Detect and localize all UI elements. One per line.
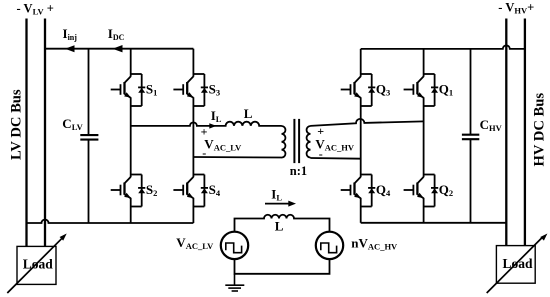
arrow Iinj — [65, 45, 75, 52]
LV DC bus negative line — [25, 19, 27, 247]
svg-text:- VLV +: - VLV + — [17, 2, 54, 17]
wire AC1 with crossover hump and inductor L — [131, 122, 282, 126]
svg-text:VAC_LV: VAC_LV — [176, 235, 214, 251]
svg-text:- VHV+: - VHV+ — [498, 1, 534, 16]
wire leg A midsection — [130, 106, 132, 175]
ground — [225, 274, 244, 291]
wire leg C midsection — [360, 106, 362, 175]
LV DC bus positive line — [44, 19, 46, 247]
load box right — [487, 234, 548, 294]
transistor Q2 — [404, 175, 454, 207]
wire AC2 left — [193, 156, 281, 159]
svg-text:L: L — [275, 218, 284, 233]
transistor Q3 — [341, 74, 391, 106]
capacitor CHV — [462, 49, 503, 223]
HV DC bus negative line — [505, 19, 507, 246]
arrow IL on AC1 wire — [209, 123, 216, 128]
wire Q2 emitter leg — [423, 207, 425, 223]
wire leg D midsection — [423, 106, 425, 175]
wire equivalent loop top with inductor L — [235, 215, 330, 232]
svg-text:IL: IL — [271, 186, 282, 202]
wire S1 collector leg — [130, 49, 132, 74]
svg-text:S3: S3 — [209, 81, 220, 97]
HV DC bus positive line — [524, 19, 526, 246]
svg-text:Load: Load — [23, 257, 54, 272]
svg-text:Load: Load — [503, 256, 534, 271]
wire top rail right with hump — [361, 45, 525, 48]
svg-text:LV DC Bus: LV DC Bus — [8, 89, 24, 160]
svg-text:IDC: IDC — [108, 26, 125, 42]
wire AC bottom right — [311, 157, 361, 160]
transistor Q1 — [404, 74, 454, 106]
svg-text:IL: IL — [211, 108, 222, 124]
svg-text:L: L — [244, 106, 253, 121]
svg-text:nVAC_HV: nVAC_HV — [351, 235, 398, 251]
svg-text:CHV: CHV — [480, 117, 503, 133]
transistor S4 — [173, 175, 220, 207]
transistor Q4 — [341, 175, 391, 207]
arrow IL bottom — [265, 201, 296, 207]
wire Q1 collector leg — [423, 49, 425, 74]
wire bottom rail left with hump — [27, 220, 194, 224]
transformer core — [294, 119, 299, 163]
svg-text:S2: S2 — [146, 182, 157, 198]
svg-text:Q3: Q3 — [376, 81, 390, 97]
wire S3 collector leg — [192, 49, 194, 74]
wire leg B midsection — [192, 106, 194, 175]
svg-text:VAC_LV: VAC_LV — [204, 136, 242, 152]
svg-text:S1: S1 — [146, 81, 157, 97]
wire S4 emitter leg — [192, 207, 194, 224]
svg-text:Q2: Q2 — [439, 182, 453, 198]
svg-text:Iinj: Iinj — [63, 26, 78, 42]
transformer T1 primary winding — [282, 126, 286, 158]
svg-text:Q1: Q1 — [439, 81, 453, 97]
load box left — [7, 234, 66, 294]
wire equivalent loop bottom — [235, 259, 330, 274]
wire top rail left bridge — [45, 48, 193, 50]
arrow IDC — [113, 45, 123, 52]
wire AC top right with crossover hump — [311, 119, 424, 126]
svg-text:Q4: Q4 — [376, 182, 391, 198]
svg-text:n:1: n:1 — [290, 164, 307, 178]
wire Q3 collector leg — [360, 49, 362, 74]
capacitor CLV — [62, 49, 98, 223]
source nVAC_HV (right square-wave source) — [316, 232, 343, 259]
source VAC_LV (left square-wave source) — [221, 232, 248, 259]
svg-text:-: - — [319, 147, 323, 161]
wire S2 emitter leg — [130, 207, 132, 224]
transistor S1 — [111, 74, 158, 106]
transistor S3 — [173, 74, 220, 106]
svg-text:CLV: CLV — [62, 116, 83, 132]
transformer T1 secondary winding — [307, 126, 311, 158]
svg-text:HV DC Bus: HV DC Bus — [531, 93, 547, 167]
transistor S2 — [111, 175, 158, 207]
svg-text:S4: S4 — [209, 182, 221, 198]
wire Q4 emitter leg — [360, 207, 362, 223]
wire bottom rail right — [361, 222, 507, 224]
